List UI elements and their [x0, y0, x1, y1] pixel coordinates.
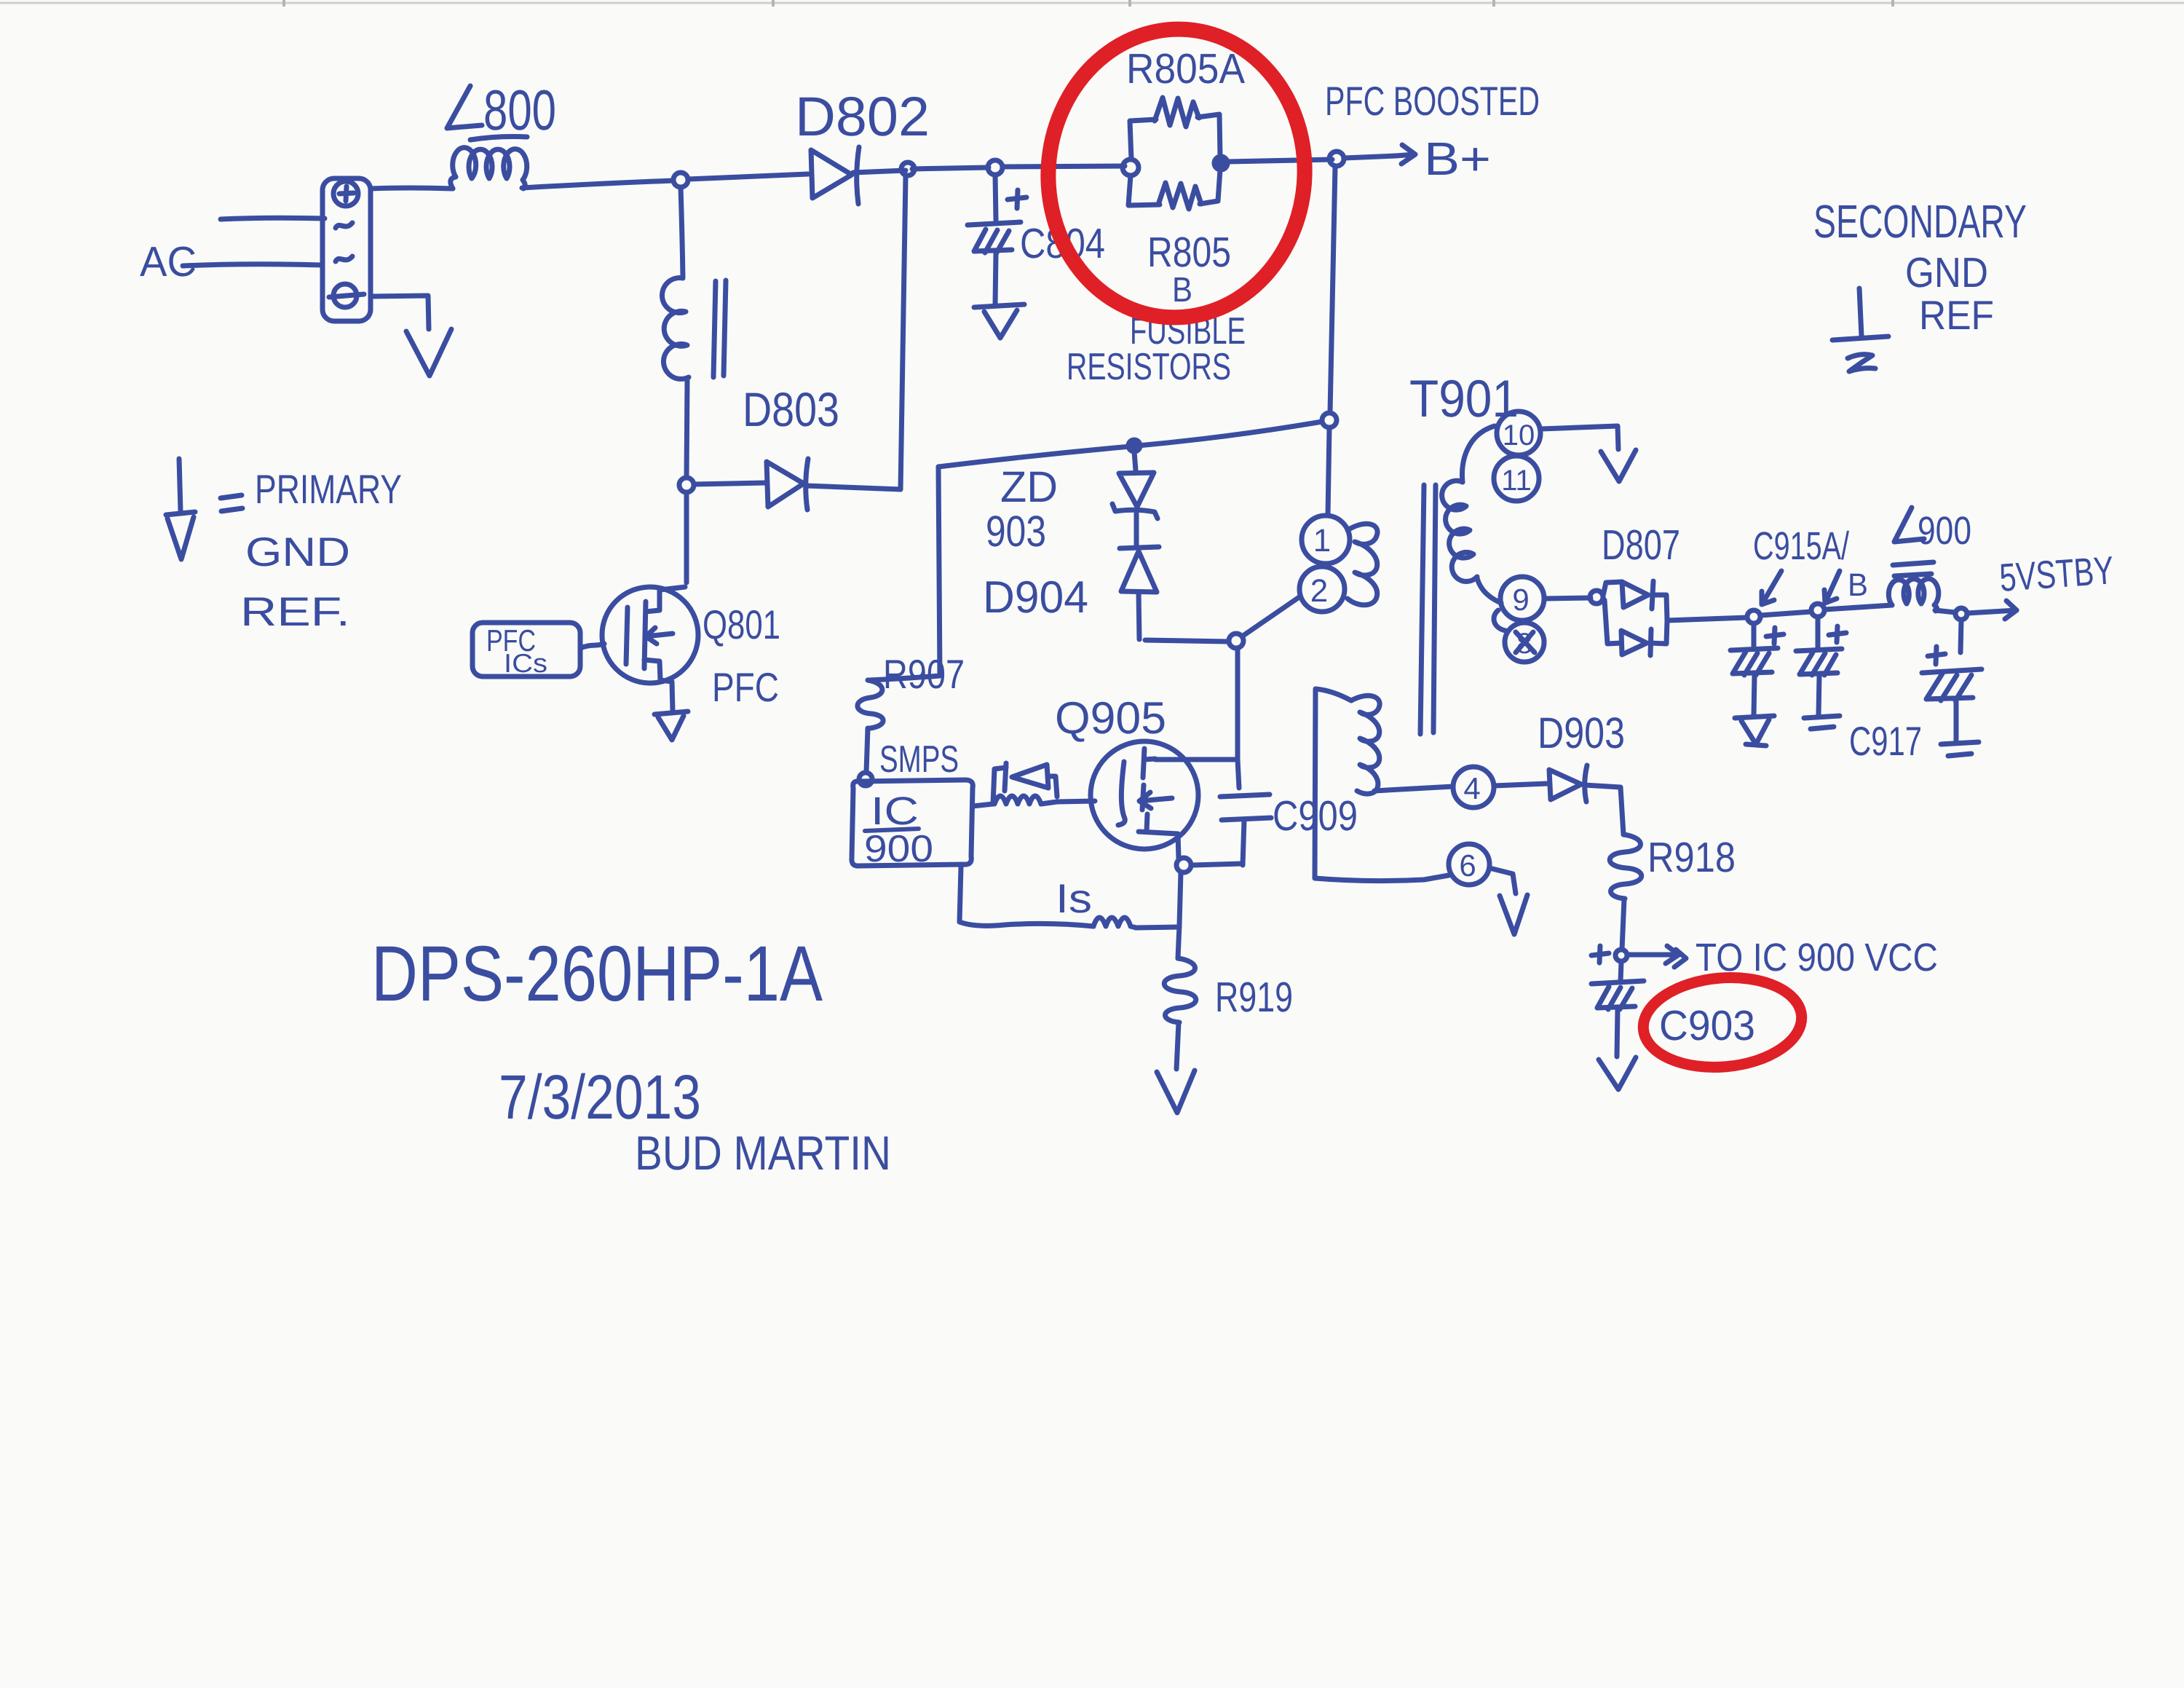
svg-text:900: 900	[864, 828, 933, 870]
svg-text:10: 10	[1503, 419, 1535, 451]
svg-text:C903: C903	[1659, 1002, 1755, 1049]
svg-text:11: 11	[1501, 465, 1532, 497]
svg-text:903: 903	[986, 507, 1046, 556]
svg-text:C909: C909	[1273, 792, 1358, 840]
svg-text:4: 4	[1463, 771, 1480, 805]
svg-text:BUD MARTIN: BUD MARTIN	[635, 1126, 891, 1180]
svg-text:900: 900	[1918, 509, 1971, 553]
svg-text:DPS-260HP-1A: DPS-260HP-1A	[371, 929, 823, 1017]
svg-text:SECONDARY: SECONDARY	[1813, 195, 2027, 248]
svg-text:R919: R919	[1215, 974, 1293, 1021]
svg-text:GND: GND	[245, 529, 350, 575]
svg-text:Q905: Q905	[1055, 693, 1166, 744]
svg-text:R805: R805	[1147, 229, 1231, 276]
svg-text:R907: R907	[883, 651, 965, 697]
svg-text:REF.: REF.	[240, 588, 350, 634]
svg-text:RESISTORS: RESISTORS	[1067, 346, 1231, 388]
svg-text:ZD: ZD	[1000, 462, 1058, 511]
svg-text:800: 800	[483, 78, 556, 142]
svg-text:1: 1	[1313, 523, 1331, 559]
svg-text:D807: D807	[1602, 521, 1680, 569]
svg-text:ICs: ICs	[504, 648, 547, 678]
svg-text:GND: GND	[1905, 249, 1988, 296]
svg-text:R918: R918	[1647, 834, 1736, 881]
svg-text:IC: IC	[871, 789, 919, 833]
svg-text:9: 9	[1512, 583, 1529, 617]
svg-text:C917: C917	[1849, 718, 1922, 764]
svg-text:5VSTBY: 5VSTBY	[1998, 548, 2116, 600]
svg-text:B+: B+	[1424, 133, 1491, 185]
svg-text:PFC: PFC	[712, 664, 779, 710]
svg-text:B: B	[1172, 271, 1192, 309]
svg-text:D903: D903	[1538, 709, 1625, 757]
svg-text:6: 6	[1459, 848, 1476, 883]
svg-text:D802: D802	[795, 86, 930, 148]
svg-text:8: 8	[1516, 628, 1532, 660]
svg-text:PRIMARY: PRIMARY	[255, 466, 402, 512]
svg-text:C915A/: C915A/	[1753, 524, 1849, 568]
svg-text:R805A: R805A	[1126, 45, 1245, 92]
svg-text:2: 2	[1310, 573, 1328, 609]
svg-text:AC: AC	[140, 238, 197, 285]
svg-text:D803: D803	[743, 382, 839, 436]
svg-text:Q801: Q801	[703, 602, 780, 647]
svg-text:B: B	[1848, 567, 1868, 603]
svg-text:7/3/2013: 7/3/2013	[499, 1062, 701, 1132]
svg-text:PFC BOOSTED: PFC BOOSTED	[1325, 78, 1540, 124]
svg-text:REF: REF	[1919, 292, 1994, 338]
svg-text:Is: Is	[1056, 875, 1092, 921]
svg-text:D904: D904	[983, 572, 1088, 623]
svg-text:SMPS: SMPS	[879, 738, 959, 781]
